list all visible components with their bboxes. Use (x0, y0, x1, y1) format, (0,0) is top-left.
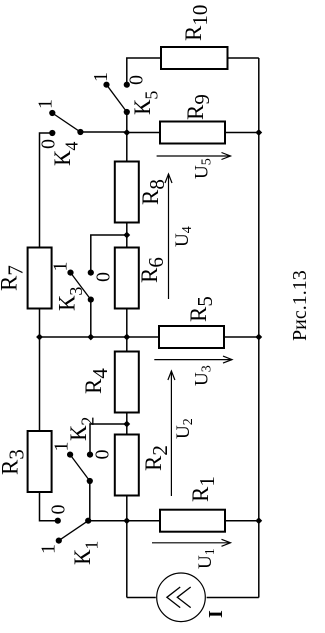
resistor R6 (115, 248, 168, 309)
svg-text:1: 1 (51, 442, 73, 452)
wire source top terminal (127, 597, 156, 599)
voltage arrow U5 (157, 153, 231, 180)
wire R1 branch K1 pivot to R1 top (88, 520, 160, 522)
junction node N (123, 129, 130, 136)
wire R9 bottom lead (225, 132, 259, 134)
voltage arrow U4 (165, 174, 195, 299)
wire mid rail segment R2 to R4 (126, 413, 128, 435)
resistor R10 (161, 5, 228, 69)
svg-text:1: 1 (50, 262, 72, 272)
voltage arrow U2 (168, 371, 196, 496)
wire R10 bottom lead (226, 57, 259, 59)
wire center column node A (40, 336, 160, 338)
current source I (157, 573, 227, 622)
svg-text:1: 1 (90, 72, 112, 82)
resistor R3 (0, 431, 52, 492)
wire bottom rail (258, 58, 260, 598)
svg-text:0: 0 (93, 272, 115, 282)
svg-text:Рис.1.13: Рис.1.13 (289, 270, 311, 341)
svg-text:0: 0 (48, 505, 70, 515)
wire mid rail segment R8 to K5 pivot (126, 112, 128, 162)
wire mid rail segment R4 to R6 (126, 309, 128, 352)
junction node P (123, 421, 130, 428)
svg-text:0: 0 (126, 75, 148, 85)
caption Рис.1.13 (289, 270, 311, 341)
voltage arrow U1 (152, 539, 231, 569)
wire K4 pivot to node N (80, 131, 126, 133)
junction node column mid (123, 334, 130, 341)
wire mid rail segment R6 to R8 (126, 223, 128, 248)
resistor R7 (0, 248, 52, 309)
svg-text:I: I (205, 610, 227, 618)
wire R5 bottom lead (224, 336, 259, 338)
wire mid rail segment source to R2 (126, 496, 128, 598)
junction node R1 bottom (255, 517, 262, 524)
wire top rail left K1 zero to R3 (40, 492, 58, 521)
resistor R9 (160, 94, 225, 143)
voltage arrow U3 (154, 356, 232, 386)
junction node M (123, 232, 130, 239)
resistor R4 (81, 352, 139, 413)
junction node column K3 (87, 334, 94, 341)
switch K3 (50, 262, 115, 312)
wire source bottom terminal (207, 597, 259, 599)
wire K1 pivot to K2 pivot (89, 481, 91, 521)
svg-text:0: 0 (38, 139, 60, 149)
junction node column top (36, 334, 43, 341)
resistor R5 (159, 296, 224, 348)
svg-text:0: 0 (92, 450, 114, 460)
wire column to K3 pivot (90, 300, 92, 337)
junction node R9 bottom (255, 129, 262, 136)
resistor R1 (160, 476, 225, 532)
resistor R2 (115, 435, 172, 496)
switch K1 (38, 505, 102, 566)
wire top rail R3 to R7 (39, 309, 41, 432)
wire K2 zero contact to node P (90, 424, 127, 455)
switch K5 (90, 72, 162, 115)
wire R9 top lead (127, 132, 160, 134)
svg-text:1: 1 (35, 99, 57, 109)
wire K5 zero contact to R10 top (127, 58, 161, 85)
junction node R1 top rail (123, 517, 130, 524)
junction node R5 bottom (255, 334, 262, 341)
wire R1 bottom lead (225, 520, 259, 522)
switch K2 (51, 417, 114, 484)
resistor R8 (115, 162, 169, 223)
svg-text:1: 1 (38, 544, 60, 554)
switch K4 (35, 99, 84, 166)
wire K3 zero contact to node M (91, 235, 127, 273)
wire top rail R7 to K4 zero (40, 133, 53, 248)
